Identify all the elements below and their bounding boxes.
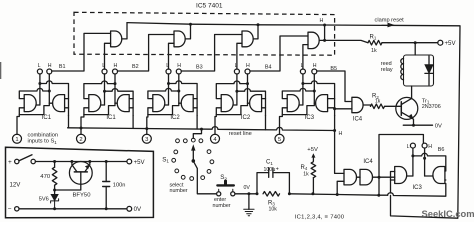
wire H drop and lower wrap stage 4 (216, 74, 247, 115)
svg-text:H: H (320, 18, 324, 24)
label Tr1 type 2N3706 (422, 104, 441, 110)
node H terminal stage 1 (47, 69, 52, 74)
latch gate left IC2 stage 3 (153, 95, 165, 112)
latch gate right IC1 stage 1 (53, 95, 65, 112)
wire input 1 riser (17, 115, 19, 135)
wire L6 bridge to right loop (413, 153, 446, 171)
latch gate right IC1 stage 2 (117, 95, 129, 112)
svg-text:IC5 7401: IC5 7401 (196, 3, 223, 10)
wire +5V arrow to R4 (311, 153, 315, 161)
label IC1 stage 1 (42, 115, 52, 121)
node L terminal stage 2 (102, 69, 107, 74)
label IC2 stage 3 (170, 115, 180, 121)
node combination input 5 (275, 134, 284, 143)
latch gate left IC3 stage 5 (287, 95, 299, 112)
wire relay feed (414, 43, 416, 55)
node L-line junction stage 2 (103, 90, 106, 93)
node + input terminal (15, 159, 19, 163)
node H terminal stage 2 (113, 69, 118, 74)
node L terminal stage 4 (234, 69, 239, 74)
wire timing rail hump and B6 wrap (388, 184, 446, 197)
label H stage 5 (313, 63, 317, 69)
node S1 link bus junction (200, 128, 203, 131)
wire H drop and lower wrap stage 1 (19, 74, 49, 115)
wire R1 to +5V (382, 42, 438, 44)
resistor R2 (371, 104, 385, 109)
wire IC5 gate a output to rail (122, 23, 127, 39)
node reset bus right junction (333, 129, 336, 132)
label R2 value 1k (375, 98, 381, 104)
wire input 2 upper jog (81, 115, 84, 128)
node 470 rail junction (53, 160, 56, 163)
label B1 (59, 64, 66, 70)
svg-text:IC2: IC2 (241, 115, 251, 121)
wire BFY50 base lead (55, 172, 81, 190)
wire stage 5 right loop to bus column (334, 116, 336, 131)
wire L3 riser to gate b (169, 43, 175, 69)
wire left feedback bridge stage 1 (19, 88, 49, 98)
svg-text:IC4: IC4 (353, 116, 363, 122)
wire left gate output stub stage 5 (299, 104, 303, 106)
node C1 left junction (256, 192, 259, 195)
label H stage 3 (177, 63, 181, 69)
label C1 value (264, 167, 276, 173)
label reset line (229, 131, 252, 137)
node IC4d output branch (378, 176, 381, 179)
wire input 3 riser (146, 129, 148, 135)
svg-text:IC2: IC2 (170, 115, 180, 121)
capacitor C1 branch (257, 173, 289, 194)
label IC2 stage 4 (241, 115, 251, 121)
node combination input 4 (211, 134, 220, 143)
wire IC4d output to B6 latch (373, 176, 395, 178)
node H terminal stage 3 (176, 69, 181, 74)
wire right gate input stubs stage 1 (65, 99, 69, 108)
svg-text:combination: combination (28, 132, 59, 138)
wire 100n (105, 162, 107, 209)
wire L5 riser to gate d (303, 45, 308, 70)
label R4 (301, 165, 308, 171)
node L terminal stage 3 (166, 69, 171, 74)
capacitor 100n plates (103, 182, 110, 187)
label IC4a (353, 116, 363, 122)
label H at gate d output (320, 18, 324, 24)
switch S1 contact ring (172, 138, 214, 180)
wire Tr1 collector to relay (401, 86, 411, 105)
power supply box (6, 147, 154, 218)
wire input 3 upper jog (147, 115, 148, 129)
wire Tr1 emitter (401, 112, 414, 125)
node emitter rail junction (88, 160, 91, 163)
label +5V top right (445, 40, 457, 47)
wire L6 drop (412, 148, 414, 176)
label BFY50 (73, 192, 92, 198)
IC5 7401 dashed package outline (74, 12, 335, 55)
label L B6 (407, 144, 410, 150)
latch gate left IC3 B6 (395, 167, 407, 184)
wire left feedback bridge stage 3 (148, 88, 179, 98)
svg-text:+5V: +5V (307, 147, 318, 153)
wire H6 drop (424, 148, 426, 176)
node 0V output terminal (127, 206, 132, 211)
svg-text:2N3706: 2N3706 (422, 104, 441, 110)
wire right feedback bridge stage 4 (237, 89, 266, 116)
label L stage 5 (301, 63, 304, 69)
wire IC4a output to R2 (363, 105, 370, 106)
wire clamp reset rail and right frame (127, 23, 460, 219)
label C1 (266, 160, 273, 166)
svg-text:H: H (313, 63, 317, 69)
node H-line junction stage 3 (177, 90, 180, 93)
wire right gate output stub stage 3 (179, 102, 181, 104)
label Tr1 (422, 98, 430, 104)
IC5 gate b (7401 NAND) (174, 31, 185, 47)
wire right gate input stubs stage 4 (262, 99, 266, 108)
label 12V (10, 181, 22, 188)
node H terminal stage 5 (312, 69, 317, 74)
label B4 (265, 65, 272, 71)
svg-text:L: L (407, 144, 410, 150)
node +5V output terminal (127, 159, 132, 164)
resistor R1 (368, 40, 382, 45)
node L terminal B6 (410, 143, 415, 148)
svg-text:+: + (8, 159, 12, 166)
wire right feedback bridge stage 5 (303, 81, 335, 116)
latch gate left IC1 stage 2 (89, 95, 101, 112)
wire gate d output to R1 (325, 40, 368, 42)
wire BFY50 collector (72, 162, 77, 172)
svg-text:4: 4 (213, 137, 217, 143)
node zener rail junction (53, 207, 56, 210)
node C1 right junction (288, 192, 291, 195)
wire left feedback bridge stage 2 (84, 81, 115, 99)
wire left gate output stub stage 2 (101, 104, 105, 106)
label IC1 stage 2 (106, 115, 116, 121)
IC5 gate c (7401 NAND) (242, 31, 253, 47)
capacitor C1 plates (269, 168, 273, 178)
label L stage 1 (38, 63, 41, 69)
node 100n top junction (105, 160, 108, 163)
svg-text:0V: 0V (435, 123, 442, 129)
svg-text:B4: B4 (265, 65, 272, 71)
reed relay box (404, 55, 434, 86)
svg-text:H: H (428, 144, 432, 150)
svg-text:reset line: reset line (229, 131, 252, 137)
label R1 (370, 34, 377, 40)
label B2 (132, 64, 139, 70)
label S1 (162, 156, 169, 163)
node IC4 branch rail junction (377, 194, 380, 197)
wire psu bottom rail (19, 208, 127, 210)
label R1 value 1k (371, 48, 377, 54)
label select number (170, 183, 188, 195)
svg-text:IC1,2,3,4, ≡ 7400: IC1,2,3,4, ≡ 7400 (295, 214, 345, 220)
latch gate left IC2 stage 4 (221, 95, 233, 112)
wire left gate output stub stage 4 (233, 104, 237, 106)
svg-text:H: H (114, 63, 118, 69)
wire right feedback bridge stage 2 (105, 89, 134, 116)
wire L drop stage 1 (39, 74, 41, 105)
wire L drop stage 4 (236, 74, 238, 105)
latch gate right IC3 B6 (433, 167, 445, 184)
svg-text:S1: S1 (162, 156, 169, 163)
svg-text:100n: 100n (113, 183, 126, 189)
ground symbol (244, 209, 254, 215)
IC5 gate d (7401 NAND) (308, 32, 319, 48)
wire IC5 gate c output to rail (253, 25, 258, 39)
node input 2 bus junction (80, 127, 83, 130)
svg-text:IC1: IC1 (42, 115, 52, 121)
wire R4 to timing rail (312, 178, 314, 194)
svg-text:+5V: +5V (134, 159, 146, 166)
wire left feedback bridge stage 4 (216, 81, 247, 99)
label clamp reset (375, 17, 405, 23)
label enter number (213, 197, 231, 209)
wire B6 left loop (391, 172, 395, 194)
wire L4 riser to gate c (237, 43, 242, 69)
node rail-d junction top (323, 24, 326, 27)
op gate IC4a (352, 97, 363, 112)
node L6 junction (411, 154, 414, 157)
svg-text:SeekIC.com: SeekIC.com (422, 209, 474, 219)
label IC type note (295, 214, 345, 220)
node L-line junction stage 1 (38, 82, 41, 85)
wire IC4c output to IC4d input (357, 176, 361, 178)
node - input terminal (15, 207, 19, 211)
wire ground drop (248, 194, 250, 210)
label +5V above R4 (307, 147, 318, 153)
resistor 470 (52, 167, 57, 185)
label C1 plus (276, 166, 279, 172)
watermark SeekIC.com (422, 209, 474, 219)
node H terminal stage 4 (245, 69, 250, 74)
node +5V terminal top right (438, 40, 443, 45)
svg-text:1k: 1k (371, 48, 377, 54)
svg-text:12V: 12V (10, 181, 22, 188)
label L stage 2 (102, 63, 105, 69)
transistor BFY50 base bar (74, 171, 87, 173)
transistor Tr1 2N3706 body (396, 97, 418, 119)
switch S1 wiper (191, 144, 195, 162)
node H6 junction (423, 157, 426, 160)
svg-text:inputs to S1: inputs to S1 (28, 139, 58, 145)
reset line bus (68, 127, 335, 131)
wire stage 3 right loop to reset bus (196, 116, 198, 129)
wire IC5 gate b output to rail (185, 24, 190, 39)
svg-text:C1: C1 (266, 160, 273, 166)
svg-text:number: number (213, 203, 231, 209)
wire IC5 gate d output (319, 25, 324, 40)
wire BFY50 emitter (85, 162, 90, 172)
wire B6 right loop lower (444, 179, 447, 181)
zener 5V6 (51, 194, 59, 209)
switch S2 button (217, 181, 233, 185)
svg-text:R4: R4 (301, 165, 308, 171)
label B5 (330, 66, 337, 72)
label IC4 pair (363, 159, 373, 165)
wire input 5 riser through bus bridge (280, 115, 283, 135)
wire right feedback bridge stage 1 (40, 81, 69, 116)
clamp reset arrowhead (388, 23, 395, 28)
wire input 4 riser through bus bridge (215, 115, 216, 135)
node switch contact (31, 159, 35, 163)
wire left feedback bridge stage 5 (282, 88, 314, 98)
node L-line junction stage 4 (235, 90, 238, 93)
node R4 junction (311, 192, 314, 195)
svg-text:H: H (177, 63, 181, 69)
wire IC4d output branch to H6 (379, 135, 423, 196)
svg-text:IC3: IC3 (305, 115, 315, 121)
node rail-c junction (257, 23, 260, 26)
node L-line junction stage 5 (301, 82, 304, 85)
wire right gate input stubs stage 3 (193, 99, 197, 108)
node gate d output junction (323, 39, 326, 42)
wire right gate output stub stage 2 (115, 102, 117, 104)
node L terminal stage 5 (300, 69, 305, 74)
wire S1 top contact to reset bus (193, 129, 201, 138)
svg-text:H: H (339, 131, 343, 137)
wire H drop and lower wrap stage 5 (282, 74, 314, 115)
latch gate right IC3 stage 5 (316, 95, 328, 112)
svg-text:10k: 10k (269, 206, 278, 212)
svg-text:5V6: 5V6 (39, 197, 49, 203)
wire Tr1 base from R2 (385, 105, 401, 107)
svg-text:S2: S2 (220, 174, 227, 181)
transistor Tr1 base bar (400, 102, 402, 115)
label L stage 4 (235, 63, 238, 69)
switch S2 contacts (217, 189, 235, 196)
label 0V at S2 (244, 185, 251, 191)
label input number 4 (213, 137, 217, 143)
label combination inputs (28, 132, 59, 145)
svg-text:3: 3 (145, 137, 149, 143)
label H at reset bus end (339, 131, 343, 137)
label 5V6 (39, 197, 49, 203)
svg-text:IC3: IC3 (413, 185, 423, 191)
label R2 (372, 94, 379, 100)
wire reset vertical down to IC4c (335, 131, 344, 174)
svg-text:B3: B3 (196, 64, 203, 70)
svg-text:H: H (246, 63, 250, 69)
label - input (8, 206, 12, 213)
wire 0V run emitter (403, 124, 432, 126)
wire L drop stage 5 (302, 74, 304, 105)
node L-line junction stage 3 (167, 82, 170, 85)
wire stage 4 right loop to reset bus (265, 116, 267, 130)
wire timing rail right (289, 194, 387, 195)
wire right gate input stubs stage 2 (129, 99, 133, 108)
svg-text:B6: B6 (438, 147, 445, 153)
label input number 5 (278, 137, 282, 143)
wire L drop stage 2 (104, 74, 106, 105)
wire H drop and lower wrap stage 2 (84, 74, 115, 115)
wire stage 1 right loop to reset bus (68, 116, 70, 128)
wire right gate input stubs stage 5 (328, 99, 335, 108)
node IC4a input branch junction (333, 107, 336, 110)
label IC3 B6 (413, 185, 423, 191)
node timing node junction (336, 193, 339, 196)
label R3 value 10k (269, 206, 278, 212)
node combination input 3 (142, 134, 151, 143)
svg-text:number: number (170, 188, 188, 194)
node H terminal B6 (422, 143, 427, 148)
wire IC4c lower input (337, 181, 344, 194)
node ground junction (247, 192, 250, 195)
label input number 2 (79, 137, 82, 143)
wire right gate output stub stage 5 (314, 102, 315, 104)
op gate IC4d (360, 169, 373, 185)
latch gate right IC2 stage 3 (181, 95, 193, 112)
label 470 (40, 174, 51, 180)
latch gate right IC2 stage 4 (250, 95, 262, 112)
svg-text:relay: relay (381, 67, 393, 73)
svg-text:B1: B1 (59, 64, 66, 70)
scan artifact left edge (0, 62, 1, 79)
svg-text:clamp reset: clamp reset (375, 17, 405, 23)
op gate IC4c (344, 169, 357, 185)
svg-text:1k: 1k (303, 171, 309, 177)
wire 470 top (54, 162, 56, 168)
switch on-off lever (19, 155, 32, 161)
wire right gate output stub stage 4 (248, 102, 250, 104)
wire B6 left gate output stub (407, 175, 413, 177)
node combination input 2 (77, 134, 86, 143)
node 100n bottom junction (105, 207, 108, 210)
label 0V output (134, 206, 142, 213)
wire 470 to zener (54, 185, 56, 194)
wire S2 to timing network (235, 193, 257, 195)
wire B3 link H3 to gate c (181, 35, 242, 72)
wire B6 left gate lower stub (391, 179, 395, 181)
resistor R3 (263, 192, 280, 197)
node L terminal stage 1 (37, 69, 42, 74)
IC5 7401 label (196, 3, 223, 10)
wire B6 right gate output stub (425, 175, 433, 177)
node H-line junction stage 1 (48, 90, 51, 93)
label 0V right (435, 123, 442, 129)
label 100n (113, 183, 126, 189)
wire IC4a lower input branch (335, 108, 352, 110)
resistor R4 (311, 162, 316, 178)
label IC3 stage 5 (305, 115, 315, 121)
svg-text:IC1: IC1 (106, 115, 116, 121)
transistor BFY50 body (69, 162, 92, 185)
latch gate left IC1 stage 1 (24, 95, 36, 112)
wire L2 riser to gate a (105, 43, 111, 69)
svg-text:1k: 1k (375, 98, 381, 104)
svg-text:1: 1 (15, 137, 18, 143)
label + input (8, 159, 12, 166)
svg-text:5: 5 (278, 137, 282, 143)
node relay top junction (414, 41, 417, 44)
label H stage 2 (114, 63, 118, 69)
svg-text:B2: B2 (132, 64, 139, 70)
label B3 (196, 64, 203, 70)
label B6 (438, 147, 445, 153)
node emitter 0V junction (412, 124, 415, 127)
node rail-b junction (189, 23, 192, 26)
reed relay coil (401, 59, 404, 80)
svg-text:0V: 0V (244, 185, 251, 191)
diode D1 across relay (425, 56, 433, 85)
wire L drop stage 3 (168, 74, 170, 105)
node H-line junction stage 2 (114, 82, 117, 85)
node collector rail junction (70, 160, 73, 163)
wire B1 link H1 to gate a (52, 33, 111, 71)
node base junction (53, 189, 56, 192)
label R3 (268, 200, 275, 206)
label reed relay (381, 61, 393, 73)
